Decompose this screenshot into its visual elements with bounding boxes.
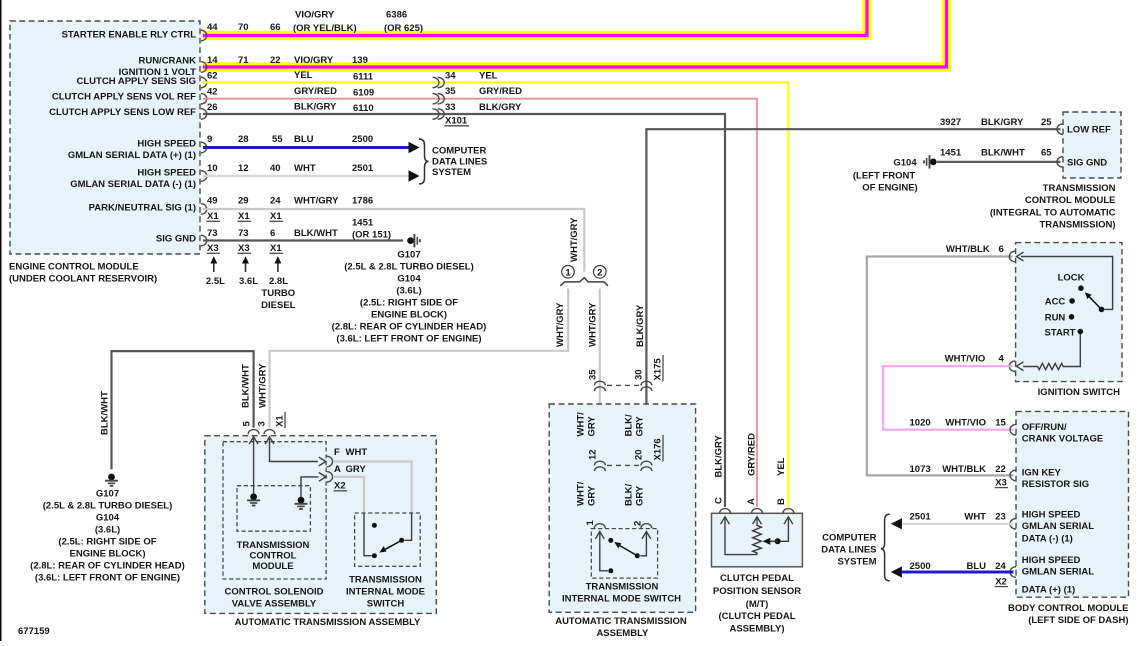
- svg-text:BLK/WHT: BLK/WHT: [981, 148, 1025, 159]
- ground G107 (left): [105, 474, 118, 486]
- svg-text:1786: 1786: [352, 196, 373, 207]
- mode switch wiper arrow (left switch): [379, 540, 401, 552]
- svg-text:(2.8L: REAR OF CYLINDER HEAD): (2.8L: REAR OF CYLINDER HEAD): [30, 561, 185, 572]
- control solenoid valve assembly box: [223, 442, 326, 579]
- svg-text:WHT/GRY: WHT/GRY: [588, 302, 599, 347]
- svg-text:STARTER ENABLE RLY CTRL: STARTER ENABLE RLY CTRL: [62, 30, 197, 41]
- svg-text:(2.5L & 2.8L TURBO DIESEL): (2.5L & 2.8L TURBO DIESEL): [344, 262, 474, 273]
- svg-text:(LEFT FRONT: (LEFT FRONT: [853, 171, 915, 182]
- svg-text:BLU: BLU: [294, 134, 314, 145]
- svg-text:A: A: [334, 464, 341, 475]
- BCM pin 24 arc: [1010, 567, 1016, 578]
- svg-text:BLK/GRY: BLK/GRY: [479, 102, 522, 113]
- TCM pin 65 arc: [1057, 157, 1063, 168]
- svg-text:G104: G104: [893, 158, 917, 169]
- svg-text:START: START: [1045, 328, 1076, 339]
- svg-text:5: 5: [242, 421, 253, 427]
- label 1073 WHT/BLK 22 X3: [910, 464, 1009, 489]
- svg-text:(2.5L: RIGHT SIDE OF: (2.5L: RIGHT SIDE OF: [360, 298, 458, 309]
- svg-text:X1: X1: [238, 211, 250, 222]
- sensor pin B arrow and wiper: [763, 517, 793, 545]
- wire GRY from pin A to mode switch: [333, 477, 364, 513]
- svg-text:GMLAN SERIAL: GMLAN SERIAL: [1022, 521, 1095, 532]
- svg-text:BODY CONTROL MODULE: BODY CONTROL MODULE: [1008, 603, 1129, 614]
- label wire 3927: [940, 117, 1052, 128]
- svg-text:WHT/GRY: WHT/GRY: [569, 217, 580, 262]
- connector labels X3 X3 X1: [207, 243, 284, 254]
- svg-text:X1: X1: [270, 211, 282, 222]
- wire 1786 WHT/GRY park/neutral sig: [203, 209, 584, 272]
- transmission internal mode switch box (left): [355, 513, 421, 566]
- svg-text:ASSEMBLY: ASSEMBLY: [596, 628, 649, 639]
- svg-text:AUTOMATIC TRANSMISSION ASSEMBL: AUTOMATIC TRANSMISSION ASSEMBLY: [235, 617, 421, 628]
- svg-text:24: 24: [270, 196, 281, 207]
- svg-text:ENGINE CONTROL MODULE: ENGINE CONTROL MODULE: [9, 262, 139, 273]
- svg-text:(2.5L: RIGHT SIDE OF: (2.5L: RIGHT SIDE OF: [58, 537, 156, 548]
- middle mode switch caption: [562, 582, 681, 605]
- engine variant arrow 3.6L: [239, 256, 258, 287]
- svg-text:G104: G104: [397, 274, 421, 285]
- arrow from computer data lines (WHT): [891, 518, 902, 529]
- svg-text:RESISTOR SIG: RESISTOR SIG: [1022, 479, 1089, 490]
- svg-text:DATA (-) (1): DATA (-) (1): [1022, 534, 1073, 545]
- svg-text:BLK/WHT: BLK/WHT: [100, 391, 111, 435]
- svg-text:9: 9: [207, 134, 212, 145]
- sensor pin C arc: [720, 509, 731, 514]
- svg-text:ACC: ACC: [1045, 297, 1066, 308]
- svg-text:20: 20: [634, 449, 645, 460]
- svg-text:(OR 151): (OR 151): [352, 230, 391, 241]
- engine control module ECM box: [10, 21, 200, 254]
- label 1020 WHT/VIO 15: [910, 418, 1007, 429]
- svg-text:COMPUTER: COMPUTER: [432, 146, 487, 157]
- svg-text:WHT/BLK: WHT/BLK: [942, 464, 986, 475]
- svg-text:28: 28: [238, 134, 249, 145]
- svg-text:6386: 6386: [386, 10, 407, 21]
- wire 139 VIO/GRY run/crank ignition 1 volt: [203, 0, 947, 67]
- ground G107/G104 caption block: [332, 250, 487, 345]
- svg-text:VIO/GRY: VIO/GRY: [294, 55, 334, 66]
- svg-text:(CLUTCH PEDAL: (CLUTCH PEDAL: [718, 611, 795, 622]
- sensor pin B arc: [783, 509, 794, 514]
- BCM pin 15 arc: [1010, 424, 1016, 435]
- svg-text:1451: 1451: [352, 218, 374, 229]
- svg-text:3927: 3927: [940, 117, 961, 128]
- ground G107 symbol (sideways) at sig gnd wire: [407, 234, 420, 247]
- svg-text:6111: 6111: [353, 72, 374, 83]
- svg-text:LOW REF: LOW REF: [1067, 125, 1111, 136]
- svg-text:2501: 2501: [352, 163, 374, 174]
- svg-text:26: 26: [207, 102, 218, 113]
- svg-text:BLK/GRY: BLK/GRY: [714, 434, 725, 477]
- middle ATA caption: [555, 616, 687, 639]
- svg-text:DATA LINES: DATA LINES: [821, 545, 876, 556]
- wire WHT/VIO ignition to BCM: [883, 366, 1013, 430]
- mode switch pin labels 1 2: [585, 520, 644, 527]
- svg-text:OF ENGINE): OF ENGINE): [862, 183, 917, 194]
- ignition switch box: [1016, 243, 1122, 382]
- svg-text:14: 14: [207, 55, 218, 66]
- computer data lines system label: [432, 146, 487, 179]
- pin 3 X1 terminal arc and arrow: [264, 430, 318, 462]
- pin 5 terminal arc and arrow: [248, 430, 259, 494]
- pin A arrow and arc: [319, 472, 333, 483]
- automatic transmission assembly box (middle): [549, 404, 695, 612]
- svg-text:X3: X3: [238, 243, 250, 254]
- computer data lines system brace: [419, 139, 429, 184]
- svg-text:YEL: YEL: [479, 71, 498, 82]
- svg-text:AUTOMATIC TRANSMISSION: AUTOMATIC TRANSMISSION: [555, 616, 687, 627]
- svg-text:CLUTCH PEDAL: CLUTCH PEDAL: [720, 573, 794, 584]
- wire 2500 BLU high speed gmlan serial data (+): [203, 146, 409, 149]
- BCM pin 23 arc: [1010, 519, 1016, 530]
- svg-text:ENGINE BLOCK): ENGINE BLOCK): [70, 549, 146, 560]
- svg-text:IGN KEY: IGN KEY: [1022, 468, 1062, 479]
- ground G104 caption: [853, 158, 918, 194]
- mode switch contacts: [608, 538, 640, 573]
- svg-text:LOCK: LOCK: [1058, 273, 1085, 284]
- wire 6111 YEL clutch apply sens sig: [203, 83, 788, 508]
- ignition resistor and start wire: [1009, 334, 1080, 372]
- svg-text:CLUTCH APPLY SENS LOW REF: CLUTCH APPLY SENS LOW REF: [49, 107, 196, 118]
- svg-text:TURBO: TURBO: [261, 288, 295, 299]
- wire 1451 BLK/WHT to G107 ground: [112, 351, 254, 469]
- svg-text:2501: 2501: [910, 511, 932, 522]
- svg-text:X176: X176: [653, 438, 664, 460]
- svg-text:12: 12: [588, 449, 599, 460]
- svg-text:X175: X175: [653, 358, 664, 381]
- svg-text:COMPUTER: COMPUTER: [822, 533, 877, 544]
- svg-text:SWITCH: SWITCH: [367, 599, 405, 610]
- svg-text:BLU: BLU: [966, 561, 986, 572]
- option split brace: [560, 278, 608, 286]
- svg-text:139: 139: [352, 55, 368, 66]
- connector X175 arcs on BLK/GRY wire: [641, 381, 652, 391]
- svg-text:29: 29: [238, 196, 249, 207]
- label wire 6386: [207, 10, 423, 35]
- svg-text:BLK/GRY: BLK/GRY: [635, 304, 646, 347]
- sensor pin C arrow and wire: [721, 517, 757, 555]
- option 2 circle: [594, 266, 607, 279]
- svg-text:66: 66: [270, 22, 281, 33]
- svg-text:WHT: WHT: [294, 163, 316, 174]
- label wire 1451: [207, 218, 391, 241]
- svg-text:(2.5L & 2.8L TURBO DIESEL): (2.5L & 2.8L TURBO DIESEL): [43, 501, 173, 512]
- option 1 circle: [562, 266, 575, 279]
- svg-text:G104: G104: [96, 513, 120, 524]
- wire 2500 BLU to BCM: [902, 571, 1014, 574]
- engine variant arrow 2.5L: [206, 256, 225, 287]
- clutch pedal position sensor caption: [713, 573, 801, 635]
- svg-text:(OR YEL/BLK): (OR YEL/BLK): [293, 23, 357, 34]
- svg-text:X3: X3: [207, 243, 219, 254]
- label WHT/BLK 6: [946, 244, 1004, 255]
- svg-text:BLK/GRY: BLK/GRY: [981, 117, 1024, 128]
- connector X175 link dash: [607, 384, 639, 386]
- svg-text:A: A: [746, 498, 757, 505]
- label wire 6111: [207, 70, 374, 83]
- wire 2501 WHT to BCM: [902, 523, 1014, 525]
- ECM pin name labels: [49, 30, 196, 245]
- svg-text:G107: G107: [96, 489, 119, 500]
- computer data lines system label (right): [821, 533, 876, 568]
- svg-text:RUN: RUN: [1045, 313, 1066, 324]
- left mode switch caption: [346, 575, 425, 610]
- svg-text:YEL: YEL: [776, 457, 787, 476]
- svg-text:1451: 1451: [940, 148, 962, 159]
- ground G107 caption block (left): [30, 489, 185, 584]
- svg-text:SYSTEM: SYSTEM: [432, 167, 471, 178]
- svg-text:X2: X2: [334, 481, 346, 492]
- clutch pedal position sensor box: [712, 513, 803, 567]
- ignition position labels: [1045, 273, 1085, 339]
- svg-text:34: 34: [445, 71, 456, 82]
- svg-text:(M/T): (M/T): [746, 599, 769, 610]
- svg-text:6: 6: [270, 228, 275, 239]
- svg-text:POSITION SENSOR: POSITION SENSOR: [713, 586, 801, 597]
- label wire 2501: [207, 163, 374, 174]
- svg-text:INTERNAL MODE: INTERNAL MODE: [346, 587, 425, 598]
- label WHT/VIO 4: [945, 354, 1005, 365]
- svg-text:WHT/GRY: WHT/GRY: [294, 196, 339, 207]
- transmission control module caption: [237, 540, 310, 572]
- svg-text:42: 42: [207, 87, 218, 98]
- rotated labels BLK/GRY GRY/RED YEL at sensor: [714, 433, 788, 505]
- svg-text:DATA LINES: DATA LINES: [432, 156, 487, 167]
- TCM pin 25 arc: [1057, 124, 1063, 135]
- wire WHT/BLK ignition to BCM: [867, 257, 1014, 476]
- svg-text:6: 6: [999, 244, 1004, 255]
- ground (left) in transmission control module: [247, 493, 260, 505]
- rotated labels WHT/GRY WHT/GRY BLK/GRY above X175: [555, 302, 646, 347]
- svg-text:WHT: WHT: [346, 447, 368, 458]
- label wire 6109: [207, 86, 374, 99]
- svg-text:24: 24: [995, 561, 1006, 572]
- svg-text:HIGH SPEED: HIGH SPEED: [137, 139, 196, 150]
- svg-text:VIO/GRY: VIO/GRY: [295, 10, 335, 21]
- svg-text:DIESEL: DIESEL: [261, 300, 296, 311]
- svg-text:B: B: [776, 498, 787, 505]
- ground (right) in transmission control module: [295, 497, 308, 509]
- svg-text:HIGH SPEED: HIGH SPEED: [137, 168, 196, 179]
- wire 1451 BLK/WHT TCM sig gnd: [937, 161, 1061, 163]
- svg-text:X101: X101: [445, 116, 468, 127]
- svg-text:ENGINE BLOCK): ENGINE BLOCK): [371, 310, 447, 321]
- engine variant arrow 2.8L turbo diesel: [261, 256, 296, 311]
- svg-text:BLK/: BLK/: [624, 483, 635, 506]
- wire WHT/GRY option 2 to internal mode switch: [599, 289, 601, 523]
- svg-text:22: 22: [270, 55, 281, 66]
- svg-text:23: 23: [995, 511, 1006, 522]
- wire 6109 GRY/RED clutch apply sens vol ref: [203, 99, 757, 507]
- svg-text:RUN/CRANK: RUN/CRANK: [138, 56, 196, 67]
- svg-text:GMLAN SERIAL: GMLAN SERIAL: [1022, 567, 1095, 578]
- control solenoid valve assembly caption: [224, 587, 323, 610]
- svg-text:SYSTEM: SYSTEM: [837, 556, 876, 567]
- svg-text:X1: X1: [270, 243, 282, 254]
- svg-text:65: 65: [1041, 148, 1052, 159]
- wire 6110 BLK/GRY clutch apply sens low ref: [203, 114, 725, 507]
- sensor pin A arrow and resistor: [753, 517, 762, 555]
- transmission control module box (right): [1063, 112, 1121, 178]
- svg-text:55: 55: [272, 134, 283, 145]
- svg-text:70: 70: [238, 22, 249, 33]
- svg-text:SIG GND: SIG GND: [156, 234, 196, 245]
- transmission control module box: [237, 486, 310, 532]
- mode switch pin 1 terminal arc and arrow: [594, 524, 608, 571]
- sensor pin A arc: [752, 509, 763, 514]
- svg-text:INTERNAL MODE SWITCH: INTERNAL MODE SWITCH: [562, 594, 681, 605]
- svg-text:X2: X2: [995, 576, 1007, 587]
- svg-text:TRANSMISSION: TRANSMISSION: [1043, 183, 1116, 194]
- svg-text:CRANK VOLTAGE: CRANK VOLTAGE: [1022, 434, 1103, 445]
- automatic transmission assembly box (left): [205, 436, 436, 614]
- svg-text:3: 3: [257, 421, 268, 426]
- BCM pin 22 arc: [1010, 470, 1016, 481]
- svg-text:(3.6L: LEFT FRONT OF ENGINE): (3.6L: LEFT FRONT OF ENGINE): [35, 573, 180, 584]
- svg-text:73: 73: [207, 228, 218, 239]
- svg-text:40: 40: [270, 163, 281, 174]
- connector X176 pin labels 12 20 X176: [588, 435, 664, 462]
- svg-text:CONTROL: CONTROL: [250, 551, 297, 562]
- svg-text:GRY/RED: GRY/RED: [747, 433, 758, 476]
- svg-text:DATA (+) (1): DATA (+) (1): [1022, 585, 1075, 596]
- svg-text:(UNDER COOLANT RESERVOIR): (UNDER COOLANT RESERVOIR): [9, 274, 157, 285]
- svg-text:WHT/GRY: WHT/GRY: [258, 363, 269, 408]
- svg-text:BLK/: BLK/: [624, 414, 635, 437]
- mode switch internal wires: [364, 513, 412, 556]
- svg-text:677159: 677159: [18, 626, 50, 637]
- svg-text:HIGH SPEED: HIGH SPEED: [1022, 555, 1081, 566]
- label wire 1451 TCM: [940, 148, 1052, 159]
- svg-text:CLUTCH APPLY SENS SIG: CLUTCH APPLY SENS SIG: [77, 76, 196, 87]
- rotated labels BLK/WHT WHT/GRY at assembly pins: [241, 363, 286, 428]
- connector X176 arcs on WHT/GRY wire: [594, 461, 605, 471]
- svg-text:WHT: WHT: [964, 511, 986, 522]
- svg-text:WHT/VIO: WHT/VIO: [945, 354, 986, 365]
- svg-text:49: 49: [207, 196, 218, 207]
- connector labels X1 X1 X1: [207, 211, 284, 222]
- arrow from computer data lines (BLU): [891, 566, 902, 577]
- svg-text:TRANSMISSION: TRANSMISSION: [586, 582, 659, 593]
- BCM pin name labels: [1022, 422, 1103, 596]
- svg-text:MODULE: MODULE: [252, 561, 293, 572]
- svg-text:35: 35: [445, 86, 456, 97]
- svg-text:PARK/NEUTRAL SIG (1): PARK/NEUTRAL SIG (1): [89, 203, 196, 214]
- label 2500 BLU 24 X2: [910, 561, 1009, 587]
- svg-text:BLK/WHT: BLK/WHT: [241, 364, 252, 408]
- svg-text:2.5L: 2.5L: [206, 276, 225, 287]
- ground G104 symbol (sideways): [924, 155, 937, 168]
- svg-text:25: 25: [1041, 117, 1052, 128]
- connector X176 link dash: [607, 464, 639, 466]
- svg-text:(INTEGRAL TO AUTOMATIC: (INTEGRAL TO AUTOMATIC: [990, 207, 1116, 218]
- mode switch pin 2 terminal arc and arrow: [640, 524, 652, 556]
- wire from ground to pin A: [301, 477, 319, 497]
- svg-text:WHT/VIO: WHT/VIO: [945, 418, 986, 429]
- svg-text:1: 1: [565, 267, 571, 278]
- svg-text:6110: 6110: [353, 103, 374, 114]
- svg-text:2.8L: 2.8L: [269, 276, 288, 287]
- svg-text:(3.6L): (3.6L): [396, 286, 421, 297]
- svg-text:IGNITION SWITCH: IGNITION SWITCH: [1038, 387, 1120, 398]
- svg-text:71: 71: [238, 55, 249, 66]
- svg-text:CONTROL MODULE: CONTROL MODULE: [1025, 195, 1116, 206]
- svg-text:F: F: [334, 447, 340, 458]
- svg-text:2500: 2500: [352, 134, 373, 145]
- svg-text:GRY: GRY: [587, 485, 598, 506]
- ignition pin 6 arc and arrow: [1009, 251, 1112, 309]
- svg-text:33: 33: [445, 102, 456, 113]
- svg-text:X3: X3: [995, 477, 1007, 488]
- label wire 6110: [207, 102, 374, 115]
- wire 1451 BLK/WHT sig gnd: [203, 239, 403, 241]
- svg-text:1: 1: [585, 520, 596, 526]
- wire WHT/GRY option 1 to control solenoid valve assy: [270, 289, 569, 428]
- svg-text:(3.6L): (3.6L): [95, 525, 120, 536]
- rotated labels WHT/GRY BLK/GRY above mode switch: [576, 481, 646, 506]
- svg-text:GRY: GRY: [635, 416, 646, 437]
- rotated labels WHT/GRY BLK/GRY inside box top: [576, 412, 646, 437]
- svg-text:73: 73: [238, 228, 249, 239]
- BCM caption: [1008, 603, 1129, 626]
- svg-text:BLK/GRY: BLK/GRY: [294, 102, 337, 113]
- svg-text:TRANSMISSION: TRANSMISSION: [237, 540, 310, 551]
- svg-text:4: 4: [999, 354, 1005, 365]
- svg-text:2: 2: [597, 267, 602, 278]
- svg-text:X1: X1: [207, 211, 219, 222]
- svg-text:(LEFT SIDE OF DASH): (LEFT SIDE OF DASH): [1028, 615, 1128, 626]
- transmission internal mode switch box (middle): [591, 529, 657, 579]
- connector X175 pin labels 35 30 X175: [588, 355, 664, 382]
- svg-text:GRY: GRY: [346, 464, 367, 475]
- page left border: [0, 0, 2, 641]
- connector X101 arcs: [433, 77, 445, 119]
- svg-text:3.6L: 3.6L: [239, 276, 258, 287]
- pin F A X2 labels: [334, 447, 368, 492]
- wire WHT from pin F to mode switch: [333, 462, 412, 514]
- svg-text:GRY: GRY: [587, 416, 598, 437]
- mode switch contacts (left switch): [372, 523, 404, 558]
- svg-text:(2.8L: REAR OF CYLINDER HEAD): (2.8L: REAR OF CYLINDER HEAD): [332, 322, 487, 333]
- arrow to computer data lines: [409, 142, 420, 153]
- ECM pin terminal arcs: [201, 30, 207, 246]
- svg-text:10: 10: [207, 163, 218, 174]
- svg-text:TRANSMISSION: TRANSMISSION: [349, 575, 422, 586]
- svg-text:HIGH SPEED: HIGH SPEED: [1022, 510, 1081, 521]
- svg-text:62: 62: [207, 71, 218, 82]
- ignition rotary contacts: [1069, 285, 1105, 334]
- svg-text:GRY: GRY: [635, 485, 646, 506]
- label 2501 WHT 23: [910, 511, 1006, 522]
- svg-text:6109: 6109: [353, 88, 374, 99]
- svg-text:WHT/GRY: WHT/GRY: [555, 302, 566, 347]
- svg-text:GMLAN SERIAL DATA (+) (1): GMLAN SERIAL DATA (+) (1): [68, 150, 196, 161]
- svg-text:2500: 2500: [910, 561, 931, 572]
- svg-text:OFF/RUN/: OFF/RUN/: [1022, 422, 1067, 433]
- svg-text:C: C: [714, 497, 725, 504]
- svg-text:GRY/RED: GRY/RED: [479, 86, 522, 97]
- wire 2501 WHT high speed gmlan serial data (-): [203, 175, 409, 177]
- svg-text:30: 30: [634, 369, 645, 380]
- svg-text:CONTROL SOLENOID: CONTROL SOLENOID: [224, 587, 323, 598]
- mode switch wiper arrow: [614, 542, 637, 556]
- svg-text:35: 35: [588, 369, 599, 380]
- wire 3927 BLK/GRY from TCM low ref down to mode switch: [646, 129, 1060, 522]
- svg-text:WHT/BLK: WHT/BLK: [946, 244, 990, 255]
- svg-text:YEL: YEL: [294, 70, 313, 81]
- svg-text:(3.6L: LEFT FRONT OF ENGINE): (3.6L: LEFT FRONT OF ENGINE): [336, 334, 481, 345]
